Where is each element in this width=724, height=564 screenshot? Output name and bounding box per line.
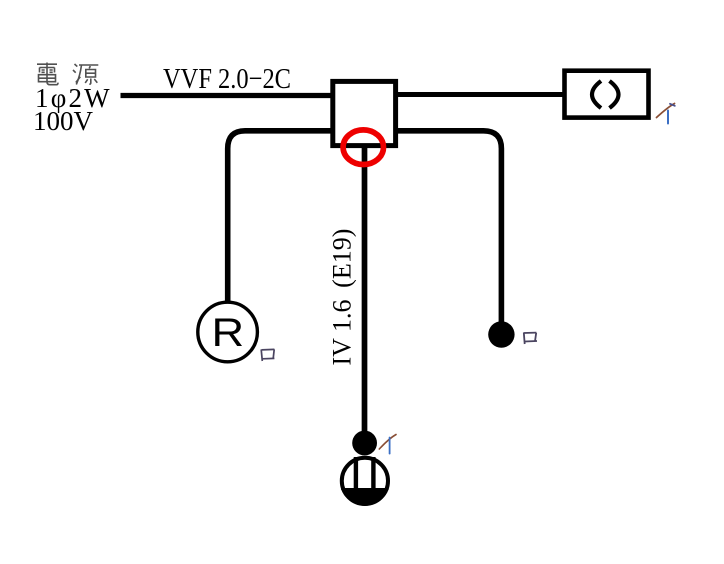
label ロ (annotation near right dot) (524, 333, 537, 344)
svg-text:IV 1.6 (E19): IV 1.6 (E19) (328, 229, 357, 366)
lamp symbol (circle with bars and filled base) (341, 457, 388, 506)
svg-text:VVF 2.0−2C: VVF 2.0−2C (163, 63, 291, 95)
outlet box with ( ) symbol (565, 71, 649, 118)
red marker circle on junction box (343, 130, 383, 165)
left paren of symbol (592, 81, 601, 108)
label: power source 電源 (hand-drawn kanji) (37, 63, 98, 85)
remote relay R circle (198, 302, 258, 362)
svg-text:100V: 100V (33, 106, 94, 136)
right paren of symbol (610, 81, 619, 108)
label イ (annotation near outlet box) (657, 104, 675, 124)
wire: main feed left (VVF 2.0-2C) (121, 93, 335, 98)
label: VVF 2.0-2C (163, 63, 291, 95)
kanji 電 (37, 63, 57, 65)
svg-text:R: R (211, 310, 244, 355)
label イ (annotation near center dot) (379, 435, 396, 454)
kanji 源 (75, 64, 78, 67)
terminal dot ロ (right branch end) (488, 321, 514, 347)
wire: right branch to dot ロ (curved down) (394, 131, 501, 323)
wire: center vertical IV 1.6 (E19) (362, 143, 368, 443)
label: 100V (33, 106, 94, 136)
label: IV 1.6 (E19) rotated (328, 229, 357, 366)
terminal dot イ (center, above lamp) (352, 431, 377, 456)
wire: box to lamp outlet イ (right horizontal) (394, 92, 566, 97)
wire: left branch to R (curved down) (228, 131, 334, 303)
label: 1φ2W (35, 83, 112, 113)
label ロ (annotation near R) (261, 349, 274, 361)
junction box (333, 81, 396, 145)
